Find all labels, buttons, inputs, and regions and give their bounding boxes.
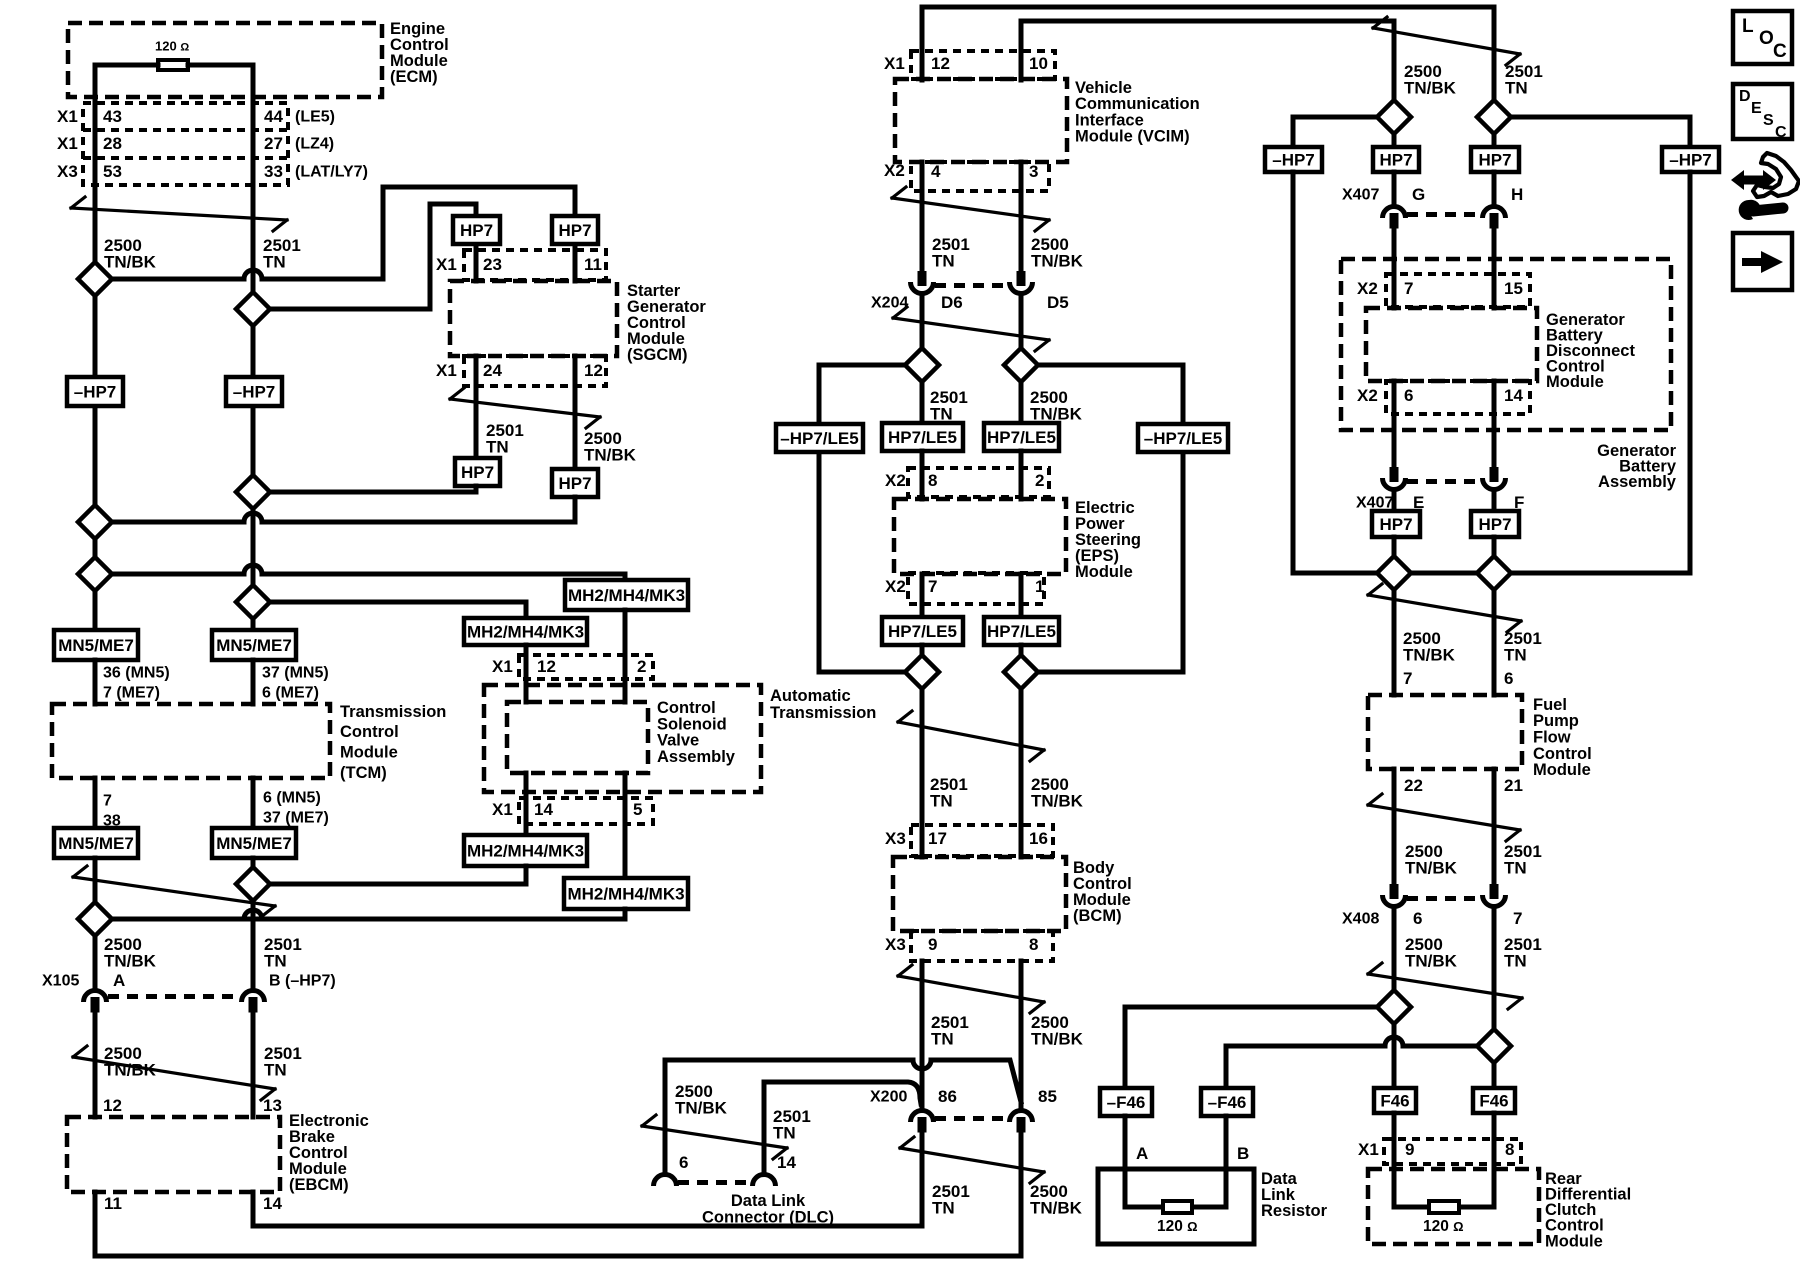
svg-text:X1: X1 <box>436 361 457 380</box>
wire label 2500 TN/BK DLC <box>675 1082 728 1117</box>
twisted pair symbol above BCM <box>898 711 1044 761</box>
wire B into data link resistor <box>1192 1116 1226 1207</box>
pin 2 CSVA <box>637 657 646 676</box>
label box HP7 G <box>1373 147 1419 172</box>
connector label X204 <box>871 295 908 312</box>
svg-text:6: 6 <box>1404 386 1413 405</box>
wire HP7 to SGCM pin 11 <box>573 244 578 281</box>
svg-text:–F46: –F46 <box>1208 1093 1247 1112</box>
wire 2500 X105 to EBCM pin 12 <box>93 1013 98 1117</box>
label box F46 pin8 <box>1473 1088 1515 1113</box>
pin label X1 CSVA bottom <box>492 800 513 819</box>
label box -F46 B <box>1201 1088 1253 1116</box>
label (LZ4) <box>295 136 334 153</box>
connector X408 7 male pin <box>1490 884 1499 899</box>
icon tools wrench <box>1739 200 1783 220</box>
pin 7 X408 <box>1513 909 1522 928</box>
label Rear Differential Clutch Control Module <box>1545 1170 1631 1250</box>
starter generator control module (SGCM) box <box>450 281 617 356</box>
EPS top pin box <box>908 468 1049 497</box>
wire 2500 to BCM pin 16 <box>1019 689 1024 857</box>
pin B X105 <box>269 973 336 990</box>
fuel pump flow control module box <box>1368 695 1522 769</box>
wire fuel pin 22 to X408 <box>1392 769 1397 884</box>
label box -HP7/LE5 right <box>1138 424 1228 452</box>
pin 12 CSVA <box>537 657 556 676</box>
label box MN5/ME7 lower right <box>212 828 296 858</box>
resistor 120 ohm inside ECM <box>158 60 188 70</box>
X105 dashed line <box>108 994 240 999</box>
rear differential clutch control module box <box>1368 1169 1539 1244</box>
resistor 120 ohm data link <box>1163 1201 1192 1213</box>
pin 9 RDCCM <box>1405 1140 1414 1159</box>
wire EPS pin 1 down <box>1019 574 1024 617</box>
label Data Link Resistor <box>1261 1170 1328 1220</box>
wire BCM pin 8 to X200 85 <box>1019 961 1024 1106</box>
pin 27 <box>264 134 283 153</box>
wire X407 H to gen module pin 15 <box>1492 230 1497 308</box>
wire X407 E to HP7 <box>1392 494 1397 511</box>
pin 33 <box>264 162 283 181</box>
X200 dashed line <box>935 1116 1008 1121</box>
wire 2501 X105 to EBCM pin 13 <box>251 1013 256 1117</box>
svg-text:–HP7: –HP7 <box>1272 151 1315 170</box>
wire label 2501 TN below X408 <box>1504 935 1542 970</box>
wire label 2500 TN/BK below X105 <box>104 1044 157 1079</box>
svg-text:–HP7: –HP7 <box>233 383 276 402</box>
splice diamond on 2501 at y602 <box>236 585 270 619</box>
wire -F46 B drop <box>1224 1046 1229 1088</box>
svg-text:MN5/ME7: MN5/ME7 <box>216 636 292 655</box>
wire SGCM pin24 HP7 to splice <box>270 486 476 492</box>
wire HP7 to SGCM pin 23 <box>474 244 479 281</box>
pin 9 BCM <box>928 935 937 954</box>
twisted pair symbol below VCIM <box>892 187 1049 231</box>
svg-text:X3: X3 <box>57 162 78 181</box>
pin 44 <box>264 107 283 126</box>
svg-text:11: 11 <box>104 1194 122 1213</box>
wire DLC pin 6 vertical <box>663 1060 668 1170</box>
wire splice to HP7/LE5 pin 8 <box>920 382 925 423</box>
label Transmission Control Module (TCM) <box>340 703 446 782</box>
pin 15 gen <box>1504 279 1523 298</box>
twisted pair symbol below X200 <box>900 1137 1044 1183</box>
wire MH2 box3 to splice on 2501 <box>270 866 526 884</box>
svg-text:33: 33 <box>264 162 283 181</box>
label box HP7/LE5 pin7 <box>882 617 963 645</box>
connector DLC pin 14 terminal <box>753 1175 776 1187</box>
svg-text:85: 85 <box>1038 1087 1057 1106</box>
label Fuel Pump Flow Control Module <box>1533 696 1592 779</box>
svg-text:44: 44 <box>264 107 283 126</box>
label box MN5/ME7 upper left <box>54 630 138 660</box>
wire HP7 to splice y573 left <box>1392 537 1397 556</box>
svg-text:A: A <box>1136 1144 1148 1163</box>
wire splice S2 to SGCM HP7 pin 23 <box>270 204 476 309</box>
svg-text:10: 10 <box>1029 54 1048 73</box>
splice diamond on 2501 at y492 <box>236 475 270 509</box>
svg-text:HP7/LE5: HP7/LE5 <box>987 428 1056 447</box>
wire 2500 from ECM pin 43 <box>93 65 98 262</box>
pin 6 gen <box>1404 386 1413 405</box>
wire EBCM pin 11 to X200 85 <box>95 1133 1021 1256</box>
wire X408 6 to splice <box>1392 911 1397 990</box>
wire -HP7/LE5 right to splice below <box>1038 452 1183 672</box>
splice diamond on 2500 at y117 <box>1377 100 1411 134</box>
svg-text:HP7: HP7 <box>558 474 591 493</box>
wire RDCCM pin 9 to resistor <box>1394 1113 1429 1207</box>
connector X200 86 terminal <box>911 1111 934 1133</box>
svg-text:X1: X1 <box>57 107 78 126</box>
pin label X2 EPS top <box>885 471 906 490</box>
pin 3 VCIM <box>1029 162 1038 181</box>
electronic brake control module (EBCM) box <box>67 1117 280 1192</box>
label Engine Control Module (ECM) <box>390 20 449 86</box>
pin 6 X408 <box>1413 909 1422 928</box>
connector X204 D6 cup <box>911 282 934 294</box>
label Generator Battery Disconnect Control Module <box>1546 311 1635 391</box>
label Control Solenoid Valve Assembly <box>657 699 736 766</box>
label box -HP7 right <box>226 377 282 406</box>
pin 14 EBCM <box>263 1194 282 1213</box>
connector label X407 EF <box>1356 495 1393 512</box>
control solenoid valve assembly box <box>507 702 648 773</box>
wire X204 D6 to splice <box>920 298 925 348</box>
wire HP7 to splice y573 right <box>1492 537 1497 556</box>
svg-text:O: O <box>1759 28 1774 49</box>
svg-text:14: 14 <box>1504 386 1523 405</box>
svg-text:X200: X200 <box>870 1089 907 1106</box>
wire SGCM pin 12 down <box>573 356 578 469</box>
wire 2500 segment <box>93 296 98 505</box>
svg-text:H: H <box>1511 185 1523 204</box>
svg-text:A: A <box>113 971 125 990</box>
icon tools double arrow <box>1731 170 1776 190</box>
label Starter Generator Control Module (SGCM) <box>627 282 706 364</box>
splice diamond on 2500 at y574 <box>78 557 112 591</box>
svg-text:6: 6 <box>679 1153 688 1172</box>
svg-text:X2: X2 <box>885 577 906 596</box>
SGCM top pin box <box>464 250 606 280</box>
wire HP7 to X407 H <box>1492 172 1497 202</box>
svg-text:3: 3 <box>1029 162 1038 181</box>
pin 17 BCM <box>928 829 947 848</box>
electric power steering (EPS) module box <box>894 499 1066 574</box>
wire splice 2501 to MH2 box2 <box>270 602 526 618</box>
pin 12 EBCM <box>103 1096 122 1115</box>
pin 16 BCM <box>1029 829 1048 848</box>
pin 12 VCIM <box>931 54 950 73</box>
svg-text:7: 7 <box>1403 669 1412 688</box>
wire fuel pin 21 to X408 <box>1492 769 1497 884</box>
splice diamond on 2501 at y1046 <box>1477 1029 1511 1063</box>
svg-text:X1: X1 <box>884 54 905 73</box>
wire BCM pin 9 to X200 86 <box>920 961 925 1106</box>
svg-text:HP7/LE5: HP7/LE5 <box>888 428 957 447</box>
wire label 2500 TN/BK fuel <box>1403 629 1456 664</box>
svg-text:6: 6 <box>1413 909 1422 928</box>
wire generator assembly box right side <box>1688 172 1693 573</box>
svg-text:(LZ4): (LZ4) <box>295 136 334 153</box>
svg-text:1: 1 <box>1035 577 1044 596</box>
wire splice to -HP7 left <box>1293 117 1377 147</box>
svg-text:28: 28 <box>103 134 122 153</box>
svg-text:16: 16 <box>1029 829 1048 848</box>
pin label X2 gen bottom <box>1357 386 1378 405</box>
wire splice to F46 pin 9 <box>1392 1024 1397 1088</box>
wire splice S1 to SGCM HP7 pin 11 <box>112 187 575 279</box>
connector X204 D5 cup <box>1010 282 1033 294</box>
wire label 2500 TN/BK top right <box>1404 62 1457 97</box>
pin 22 fuel <box>1404 776 1423 795</box>
wire DLC pin 14 vertical <box>762 1082 767 1170</box>
icon tools hook outline <box>1753 153 1799 197</box>
label box F46 pin9 <box>1374 1088 1416 1113</box>
wire MH2 box2 to CSVA pin 12 <box>524 645 529 702</box>
pin E X407 <box>1413 493 1424 512</box>
svg-text:4: 4 <box>931 162 941 181</box>
splice diamond on 2501 at y672 <box>905 655 939 689</box>
splice diamond on 2500 at y1007 <box>1377 990 1411 1024</box>
splice diamond on 2500 at y365 <box>1004 348 1038 382</box>
wire label 2500 TN/BK below X200 <box>1030 1182 1083 1217</box>
svg-text:HP7: HP7 <box>460 221 493 240</box>
data link resistor box <box>1098 1169 1254 1244</box>
connector X200 85 terminal <box>1010 1111 1033 1133</box>
label Body Control Module (BCM) <box>1073 859 1132 925</box>
X408 dashed line <box>1407 896 1481 901</box>
svg-text:HP7: HP7 <box>558 221 591 240</box>
label Data Link Connector (DLC) <box>702 1192 834 1227</box>
svg-text:–HP7/LE5: –HP7/LE5 <box>780 429 858 448</box>
pin G X407 <box>1412 185 1425 204</box>
wire VCIM pin 10 top run to 2500 TN/BK right <box>1021 21 1394 100</box>
connector X408 6 cup <box>1383 895 1406 907</box>
twisted pair symbol below X204 <box>893 307 1049 351</box>
svg-text:–HP7: –HP7 <box>74 383 117 402</box>
pin 6 fuel <box>1504 669 1513 688</box>
svg-text:7: 7 <box>928 577 937 596</box>
X407 EF dashed line <box>1407 479 1481 484</box>
svg-text:14: 14 <box>534 800 553 819</box>
pin 43 <box>103 107 122 126</box>
svg-text:MN5/ME7: MN5/ME7 <box>216 834 292 853</box>
wire label 2501 TN below X200 <box>932 1182 970 1217</box>
svg-text:HP7: HP7 <box>461 463 494 482</box>
wire SGCM pin12 HP7 to splice <box>112 497 575 522</box>
splice diamond on 2500 at y279 <box>78 262 112 296</box>
icon box DESC <box>1733 84 1792 141</box>
svg-text:F46: F46 <box>1479 1092 1508 1111</box>
pin 11 <box>584 255 602 274</box>
pin label X2 VCIM <box>884 161 905 180</box>
wire gen pin 6 to X407 E <box>1392 381 1397 467</box>
X407 GH dashed line <box>1407 212 1481 217</box>
svg-text:X2: X2 <box>1357 279 1378 298</box>
svg-text:2: 2 <box>1035 471 1044 490</box>
pin label 7 38 <box>103 793 121 830</box>
connector X407 F cup <box>1483 478 1506 490</box>
pin 1 EPS <box>1035 577 1044 596</box>
svg-text:HP7/LE5: HP7/LE5 <box>987 622 1056 641</box>
wire label 2500 TN/BK SGCM <box>584 429 637 464</box>
svg-text:MH2/MH4/MK3: MH2/MH4/MK3 <box>467 623 584 642</box>
label 120 ohm <box>155 38 189 53</box>
transmission control module (TCM) box <box>52 704 330 778</box>
X204 dashed line <box>935 283 1008 288</box>
pin H X407 <box>1511 185 1523 204</box>
icon box LOC <box>1733 11 1792 64</box>
svg-text:14: 14 <box>263 1194 282 1213</box>
wire label 2501 TN fuel <box>1504 629 1542 664</box>
svg-text:120 Ω: 120 Ω <box>155 38 189 53</box>
svg-text:D: D <box>1739 88 1751 105</box>
pin label X1 CSVA top <box>492 657 513 676</box>
wire label 2501 TN above X408 <box>1504 842 1542 877</box>
pin D6 <box>941 293 963 312</box>
wire 2501 to MN5 box <box>251 619 256 630</box>
splice diamond on 2501 at y309 <box>236 292 270 326</box>
svg-text:HP7: HP7 <box>1379 515 1412 534</box>
label box MH2/MH4/MK3 no1 <box>565 580 688 610</box>
wire 2501 segment2 <box>251 509 256 585</box>
label Electric Power Steering (EPS) Module <box>1075 499 1141 581</box>
wire EPS pin 7 down <box>920 574 925 617</box>
svg-text:11: 11 <box>584 255 602 274</box>
svg-text:24: 24 <box>483 361 502 380</box>
SGCM bottom pin box <box>464 356 606 386</box>
wire 2500 segment2 <box>93 539 98 557</box>
pin 85 X200 <box>1038 1087 1057 1106</box>
svg-text:12: 12 <box>931 54 950 73</box>
label (LE5) <box>295 109 335 126</box>
wire diamond to HP7 G <box>1392 134 1397 147</box>
svg-text:X3: X3 <box>885 829 906 848</box>
pin 8 RDCCM <box>1505 1140 1514 1159</box>
svg-text:B: B <box>1237 1144 1249 1163</box>
wire label 2501 TN DLC <box>773 1107 811 1142</box>
wire 2501 below MN5 <box>251 858 256 867</box>
svg-text:12: 12 <box>103 1096 122 1115</box>
wire MH2 box4 to splice on 2500 <box>112 909 625 919</box>
svg-text:6: 6 <box>1504 669 1513 688</box>
wire 2500 to MN5 box <box>93 591 98 630</box>
wire splice to HP7/LE5 pin 2 <box>1019 382 1024 423</box>
pin 14 gen <box>1504 386 1523 405</box>
svg-text:9: 9 <box>1405 1140 1414 1159</box>
gen module bottom pin box <box>1386 381 1530 414</box>
svg-text:B (–HP7): B (–HP7) <box>269 973 336 990</box>
wire gen pin 14 to X407 F <box>1492 381 1497 467</box>
icon box arrow <box>1733 233 1792 290</box>
pin label X2 gen top <box>1357 279 1378 298</box>
svg-text:MH2/MH4/MK3: MH2/MH4/MK3 <box>467 842 584 861</box>
pin F X407 <box>1514 493 1524 512</box>
VCIM bottom pin box <box>911 162 1049 191</box>
label 120 ohm data link <box>1157 1218 1198 1235</box>
automatic transmission outer dashed box <box>484 685 761 792</box>
wire HP7 to X407 G <box>1392 172 1397 202</box>
svg-text:5: 5 <box>633 800 642 819</box>
pin 12 <box>584 361 603 380</box>
pin label X3 BCM top <box>885 829 906 848</box>
wire splice to -HP7/LE5 right <box>1038 365 1183 424</box>
svg-text:8: 8 <box>1505 1140 1514 1159</box>
svg-text:14: 14 <box>777 1153 796 1172</box>
pin label 37 MN5 6 ME7 <box>262 665 329 702</box>
svg-text:E: E <box>1751 100 1762 117</box>
pin A resistor <box>1136 1144 1148 1163</box>
resistor 120 ohm rear differential <box>1429 1201 1459 1213</box>
twisted pair symbol above DLC <box>642 1115 787 1159</box>
pin 6 DLC <box>679 1153 688 1172</box>
splice diamond on 2501 at y573 <box>1477 556 1511 590</box>
pin 8 EPS <box>928 471 937 490</box>
svg-text:53: 53 <box>103 162 122 181</box>
BCM top pin box <box>911 825 1053 856</box>
svg-text:43: 43 <box>103 107 122 126</box>
wire 2501 to X105 B <box>251 901 256 986</box>
wire HP7/LE5 to EPS pin 8 <box>920 451 925 499</box>
svg-text:12: 12 <box>584 361 603 380</box>
RDCCM pin box <box>1384 1139 1521 1164</box>
wire label 2500 TN/BK left <box>104 236 157 271</box>
svg-text:MH2/MH4/MK3: MH2/MH4/MK3 <box>568 586 685 605</box>
wire DLC pin 14 branch to X200 86 <box>764 1082 921 1104</box>
svg-text:ElectricPowerSteering(EPS)Modu: ElectricPowerSteering(EPS)Module <box>1075 499 1141 581</box>
wire to TCM pin 36/7 <box>93 660 98 704</box>
pin 2 EPS <box>1035 471 1044 490</box>
svg-text:X1: X1 <box>436 255 457 274</box>
svg-text:C: C <box>1775 124 1787 141</box>
wire generator assembly box left side <box>1291 172 1296 573</box>
svg-text:F46: F46 <box>1380 1092 1409 1111</box>
wire TCM pin6/37 down <box>251 778 256 828</box>
connector label X407 GH <box>1342 187 1379 204</box>
twisted pair symbol below X408 <box>1368 963 1522 1009</box>
wire 2501 segment <box>251 326 256 475</box>
splice diamond on 2501 at y117 <box>1477 100 1511 134</box>
label box HP7/LE5 pin2 <box>984 423 1059 451</box>
svg-text:X2: X2 <box>885 471 906 490</box>
body control module (BCM) box <box>893 857 1066 931</box>
pin 13 EBCM <box>263 1096 282 1115</box>
pin 7 EPS <box>928 577 937 596</box>
svg-text:X3: X3 <box>885 935 906 954</box>
svg-text:86: 86 <box>938 1087 957 1106</box>
wire X204 D5 to splice <box>1019 298 1024 348</box>
svg-text:D5: D5 <box>1047 293 1069 312</box>
wire DLC pin 6 branch to X200 85 <box>665 1060 1021 1102</box>
splice diamond on 2500 at y919 <box>78 902 112 936</box>
pin 28 <box>103 134 122 153</box>
svg-text:X408: X408 <box>1342 911 1379 928</box>
wire VCIM pin 3 to X204 D5 <box>1019 162 1024 271</box>
EPS bottom pin box <box>908 573 1044 604</box>
wire label 2501 TN below BCM <box>931 1013 969 1048</box>
svg-text:HP7: HP7 <box>1379 151 1412 170</box>
svg-text:X2: X2 <box>884 161 905 180</box>
wire RDCCM pin 8 to resistor <box>1459 1113 1494 1207</box>
label box MN5/ME7 upper right <box>212 630 296 660</box>
pin 10 VCIM <box>1029 54 1048 73</box>
wire label 2501 TN above X105 <box>264 935 302 970</box>
label box HP7 E <box>1372 511 1420 537</box>
engine control module (ECM) box <box>68 23 382 97</box>
wire CSVA pin 14 down <box>524 773 529 835</box>
svg-text:L: L <box>1742 16 1754 37</box>
label box HP7 above SGCM pin 11 <box>552 216 598 244</box>
